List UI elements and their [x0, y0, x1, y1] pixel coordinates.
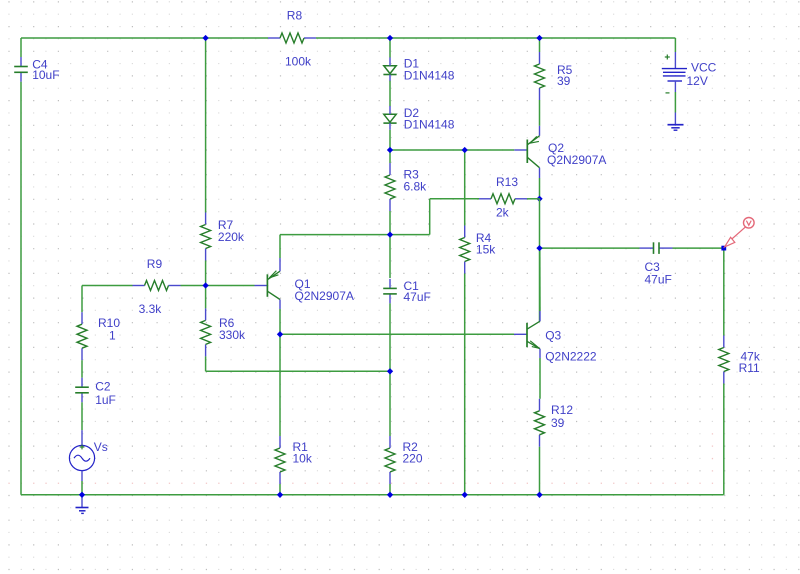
svg-text:100k: 100k — [285, 54, 312, 68]
svg-text:Q3: Q3 — [545, 329, 561, 343]
svg-text:2k: 2k — [496, 206, 510, 220]
svg-text:47uF: 47uF — [645, 273, 672, 287]
svg-text:3.3k: 3.3k — [139, 302, 163, 316]
svg-text:1: 1 — [109, 329, 116, 343]
svg-text:Q2N2907A: Q2N2907A — [295, 289, 354, 303]
svg-text:220k: 220k — [218, 230, 245, 244]
svg-text:330k: 330k — [219, 328, 246, 342]
svg-text:6.8k: 6.8k — [404, 179, 428, 193]
svg-text:VCC: VCC — [691, 60, 717, 74]
svg-text:Vs: Vs — [94, 440, 108, 454]
svg-text:R13: R13 — [496, 175, 518, 189]
svg-text:10k: 10k — [293, 451, 313, 465]
svg-text:1uF: 1uF — [95, 393, 116, 407]
svg-text:47uF: 47uF — [404, 290, 431, 304]
svg-text:R8: R8 — [287, 9, 303, 23]
svg-text:39: 39 — [557, 74, 571, 88]
svg-text:Q2N2907A: Q2N2907A — [547, 153, 606, 167]
svg-text:12V: 12V — [687, 74, 708, 88]
svg-text:R9: R9 — [147, 257, 163, 271]
svg-text:D1N4148: D1N4148 — [404, 117, 455, 131]
svg-text:D1N4148: D1N4148 — [404, 68, 455, 82]
svg-text:39: 39 — [551, 416, 565, 430]
svg-text:220: 220 — [403, 451, 423, 465]
svg-text:15k: 15k — [476, 243, 496, 257]
svg-text:C2: C2 — [95, 380, 111, 394]
svg-text:10uF: 10uF — [32, 68, 59, 82]
svg-text:R11: R11 — [739, 361, 760, 375]
svg-text:Q2N2222: Q2N2222 — [545, 350, 597, 364]
